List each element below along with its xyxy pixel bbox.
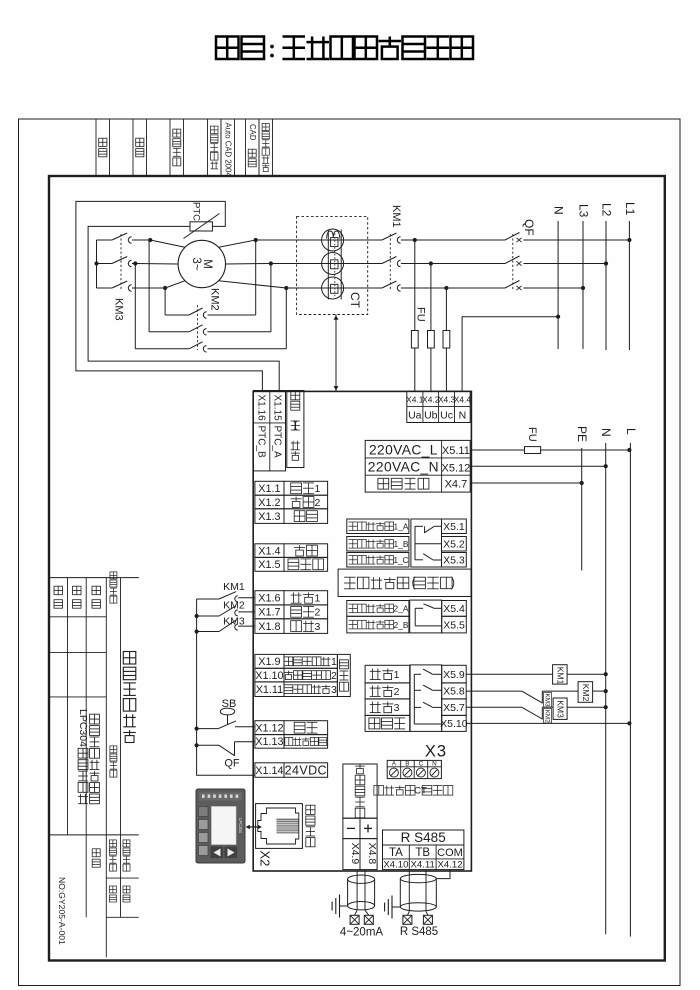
aux contact KM3 xyxy=(195,616,255,634)
svg-text:3: 3 xyxy=(314,621,320,633)
interlock contact KM3 and coil KM2 xyxy=(466,682,608,707)
terminal X5.2 xyxy=(442,537,467,552)
svg-text:A: A xyxy=(392,761,397,768)
wire X4.12 to cable shield xyxy=(436,870,450,879)
wire PTC_B to X1.16 xyxy=(76,201,263,391)
aux contact QF xyxy=(195,742,255,770)
net L2 xyxy=(599,203,613,350)
svg-text:2: 2 xyxy=(331,670,337,682)
terminal X1.12 xyxy=(255,721,328,735)
terminal X1.8 xyxy=(255,619,328,634)
motor M 3~ xyxy=(178,240,225,287)
svg-text:NO:GY205-A-001: NO:GY205-A-001 xyxy=(57,877,67,945)
svg-text:2_A: 2_A xyxy=(394,604,409,614)
contactor coil KM1 xyxy=(466,665,608,685)
thermistor PTC xyxy=(184,202,220,239)
net N top xyxy=(552,206,566,349)
svg-text:1_B: 1_B xyxy=(394,539,409,549)
page title 附四:星三角启动接线图 xyxy=(216,37,473,60)
svg-text:LPC304: LPC304 xyxy=(238,818,243,834)
node fuse tap a xyxy=(413,238,417,242)
RS485 port block xyxy=(383,830,464,870)
svg-text:X4.8: X4.8 xyxy=(366,843,378,865)
svg-text:X1.3: X1.3 xyxy=(258,511,280,523)
svg-text:X5.1: X5.1 xyxy=(443,521,465,533)
aux contact KM2 xyxy=(195,600,255,619)
wire phase3 motor to CT xyxy=(286,287,382,289)
terminal X5.8 xyxy=(442,683,467,699)
svg-text:X4.1: X4.1 xyxy=(406,395,424,405)
label programmable output custom xyxy=(338,569,471,596)
svg-text:Uc: Uc xyxy=(440,410,453,422)
svg-text:X4.11: X4.11 xyxy=(411,859,435,870)
svg-text:4~20mA: 4~20mA xyxy=(340,927,383,939)
svg-text:R S485: R S485 xyxy=(400,926,438,938)
svg-text:X1.14: X1.14 xyxy=(255,765,283,777)
svg-text:PE: PE xyxy=(575,426,589,442)
svg-text:X5.2: X5.2 xyxy=(443,539,465,551)
svg-text:X1.8: X1.8 xyxy=(258,621,280,633)
svg-text:X1.6: X1.6 xyxy=(258,593,280,605)
label custom-defined column xyxy=(337,654,350,696)
terminal X1.7 xyxy=(255,605,328,619)
terminal X5.5 xyxy=(442,616,467,633)
svg-text:X5.4: X5.4 xyxy=(443,603,465,615)
label temperature protection xyxy=(287,391,304,468)
motor lead wires xyxy=(135,240,286,288)
svg-text:QF: QF xyxy=(522,219,536,236)
terminal X5.1 xyxy=(442,519,467,534)
svg-text:X4.4: X4.4 xyxy=(454,395,472,405)
analog output block xyxy=(343,764,377,839)
fuses FU three-phase xyxy=(411,240,449,391)
svg-text:N: N xyxy=(432,761,437,768)
contactor KM3 main contacts xyxy=(97,233,166,321)
terminal X4.9 xyxy=(343,839,361,870)
relay contact K2 xyxy=(410,600,442,633)
cable shield ground 2 xyxy=(385,896,401,919)
shielded cable RS485 xyxy=(400,870,436,924)
terminals X4.1-X4.4 Ua Ub Uc N xyxy=(406,391,471,422)
node W right xyxy=(284,286,288,290)
wire N to X4.4 xyxy=(462,315,560,392)
node V1 left xyxy=(133,261,137,265)
relay output group 1 labels xyxy=(347,519,409,567)
node W1 left xyxy=(163,286,167,290)
svg-text:N: N xyxy=(599,428,613,437)
svg-text:QF: QF xyxy=(224,758,240,770)
svg-text:KM1: KM1 xyxy=(390,205,402,228)
svg-text:CAD: CAD xyxy=(248,124,257,141)
svg-text:L1: L1 xyxy=(623,202,637,216)
svg-text:PTC_A: PTC_A xyxy=(272,426,283,459)
star point wire xyxy=(94,240,98,288)
contactor KM1 main contacts xyxy=(382,205,505,291)
svg-text:KM2: KM2 xyxy=(581,684,591,702)
svg-text:1: 1 xyxy=(314,483,320,495)
svg-text:KM3: KM3 xyxy=(556,700,566,718)
svg-text:1_C: 1_C xyxy=(393,555,408,565)
svg-text:C: C xyxy=(419,761,424,768)
svg-text:2: 2 xyxy=(314,607,320,619)
svg-text:KM3: KM3 xyxy=(223,616,245,628)
node fuse tap b xyxy=(429,261,433,265)
svg-text:220VAC_L: 220VAC_L xyxy=(369,442,438,457)
svg-text:LPC304: LPC304 xyxy=(77,709,89,747)
terminal X1.6 xyxy=(255,591,328,605)
relay contacts K3 K4 K5 xyxy=(410,665,442,732)
RJ45 panel port X2 xyxy=(256,804,315,867)
cable shield ground 1 xyxy=(332,895,348,918)
node L1 tap xyxy=(627,238,631,242)
svg-text:24VDC: 24VDC xyxy=(285,764,327,778)
wire protective earth to PE xyxy=(471,481,584,485)
relay output group 2 labels xyxy=(347,601,409,633)
svg-text:X1.4: X1.4 xyxy=(258,545,280,557)
svg-text:1: 1 xyxy=(331,656,337,668)
emergency stop button SB xyxy=(195,698,255,731)
svg-text:Ub: Ub xyxy=(424,410,438,422)
svg-text:X1.15: X1.15 xyxy=(272,395,283,422)
svg-text:X1.10: X1.10 xyxy=(255,670,283,682)
wire 220VAC_N to N xyxy=(471,464,608,468)
aux contact KM1 xyxy=(197,581,255,602)
svg-text:X1.2: X1.2 xyxy=(258,497,280,509)
terminal X1.4 xyxy=(255,544,328,558)
terminal X5.4 xyxy=(442,601,467,617)
terminal X1.14 xyxy=(255,763,328,778)
terminal X1.15 X1.16 PTC block xyxy=(254,391,286,471)
svg-text:X5.3: X5.3 xyxy=(443,555,465,567)
svg-text:1_A: 1_A xyxy=(394,522,409,532)
svg-text:X1.5: X1.5 xyxy=(258,559,280,571)
panel link arrow xyxy=(246,825,262,830)
terminal X1.11 xyxy=(255,682,338,697)
svg-text:PTC_B: PTC_B xyxy=(256,426,267,459)
wire PTC_A to X1.15 xyxy=(88,226,279,391)
svg-text:TB: TB xyxy=(415,847,430,859)
svg-text:2: 2 xyxy=(394,686,400,698)
node L2 tap xyxy=(604,261,608,265)
relay changeover contact K1 xyxy=(411,519,442,567)
terminal X1.9 xyxy=(255,654,338,668)
label reserved external CT secondary xyxy=(374,786,453,797)
terminal X5.3 xyxy=(442,553,467,568)
contactor KM2 delta contacts xyxy=(135,240,286,352)
svg-text:X4.10: X4.10 xyxy=(383,859,408,870)
svg-text:COM: COM xyxy=(437,847,463,859)
svg-text:N: N xyxy=(552,206,566,215)
svg-text:X1.9: X1.9 xyxy=(258,656,280,668)
svg-text:X3: X3 xyxy=(425,743,447,761)
svg-text:3~: 3~ xyxy=(190,257,202,270)
wire 24VDC bus xyxy=(197,599,255,775)
control output labels xyxy=(365,665,410,731)
svg-text:X5.10: X5.10 xyxy=(440,718,468,730)
svg-text:X4.7: X4.7 xyxy=(445,479,468,491)
svg-text:KM2: KM2 xyxy=(223,600,245,612)
net PE xyxy=(575,426,589,570)
svg-text:PTC: PTC xyxy=(191,202,202,221)
svg-text:N: N xyxy=(459,410,467,422)
svg-text:X1.1: X1.1 xyxy=(258,483,280,495)
terminal X1.10 xyxy=(255,668,338,682)
svg-text:X1.13: X1.13 xyxy=(255,736,283,748)
svg-text:CT: CT xyxy=(348,292,362,309)
svg-text:L3: L3 xyxy=(576,204,590,218)
panel meter photo xyxy=(196,789,245,863)
svg-text:X5.8: X5.8 xyxy=(443,686,465,698)
terminal X4.8 xyxy=(360,839,378,870)
fuse FU control supply xyxy=(471,427,632,454)
svg-text:X2: X2 xyxy=(258,851,273,867)
svg-text:X4.9: X4.9 xyxy=(349,843,361,865)
terminal X3 xyxy=(387,743,447,779)
terminal X5.10 xyxy=(440,715,468,731)
wire phase1 motor to CT xyxy=(256,239,382,241)
node fuse tap c xyxy=(444,286,448,290)
interlock contact KM2 and coil KM3 xyxy=(466,698,608,723)
node U1 left xyxy=(148,238,152,242)
svg-text:X4.12: X4.12 xyxy=(437,859,462,870)
terminal X1.5 xyxy=(255,557,328,571)
node L3 tap xyxy=(581,286,585,290)
svg-text:3: 3 xyxy=(331,684,337,696)
svg-text:X5.5: X5.5 xyxy=(443,619,465,631)
node V right xyxy=(269,261,273,265)
current transformers CT xyxy=(297,216,368,314)
svg-text:X1.12: X1.12 xyxy=(255,723,283,735)
svg-text:1: 1 xyxy=(394,669,400,681)
net N lower xyxy=(599,428,613,934)
svg-text:KM2: KM2 xyxy=(544,710,551,723)
net L3 xyxy=(576,204,590,349)
svg-text:L: L xyxy=(624,428,638,435)
svg-text:3: 3 xyxy=(394,702,400,714)
svg-text:X5.9: X5.9 xyxy=(443,669,465,681)
svg-text:KM1: KM1 xyxy=(555,667,565,685)
net L lower xyxy=(624,428,638,937)
svg-text:KM2: KM2 xyxy=(209,288,221,311)
svg-text:KM3: KM3 xyxy=(544,694,551,707)
svg-text:KM1: KM1 xyxy=(223,581,245,593)
wire phase2 motor to CT xyxy=(271,263,382,265)
node U right xyxy=(254,238,258,242)
svg-text:FU: FU xyxy=(526,427,538,442)
terminal X1.1 xyxy=(255,481,328,495)
svg-text:L2: L2 xyxy=(599,203,613,217)
shielded cable 4-20mA xyxy=(348,870,375,924)
terminal X5.7 xyxy=(442,699,467,716)
terminal X1.3 xyxy=(255,509,328,524)
svg-text:2: 2 xyxy=(314,497,320,509)
terminal block 220VAC and protective earth xyxy=(365,440,470,492)
terminal X1.2 xyxy=(255,495,328,509)
svg-text:2_B: 2_B xyxy=(394,620,409,630)
svg-text:KM3: KM3 xyxy=(113,298,125,321)
svg-text:R S485: R S485 xyxy=(401,830,446,845)
svg-text:220VAC_N: 220VAC_N xyxy=(368,460,439,475)
circuit breaker QF xyxy=(505,219,629,290)
terminal X1.13 xyxy=(255,735,328,749)
controller LPC304 outline xyxy=(253,391,471,871)
svg-text:Ua: Ua xyxy=(408,410,422,422)
svg-text:X5.11: X5.11 xyxy=(442,445,470,457)
svg-text:B: B xyxy=(405,761,409,768)
net L1 xyxy=(623,202,637,350)
svg-text:X5.12: X5.12 xyxy=(442,462,471,474)
svg-text:FU: FU xyxy=(414,307,426,322)
svg-text:1: 1 xyxy=(314,593,320,605)
svg-text:Auto CAD 2004: Auto CAD 2004 xyxy=(223,123,232,178)
svg-text:X1.11: X1.11 xyxy=(256,684,283,696)
wire common to L xyxy=(466,721,631,725)
svg-text:X1.16: X1.16 xyxy=(256,395,267,422)
terminal X5.9 xyxy=(442,665,467,683)
svg-text:TA: TA xyxy=(389,847,403,859)
wire CT secondary to controller xyxy=(334,315,339,392)
svg-text:X5.7: X5.7 xyxy=(443,702,465,714)
svg-text:X1.7: X1.7 xyxy=(258,607,280,619)
